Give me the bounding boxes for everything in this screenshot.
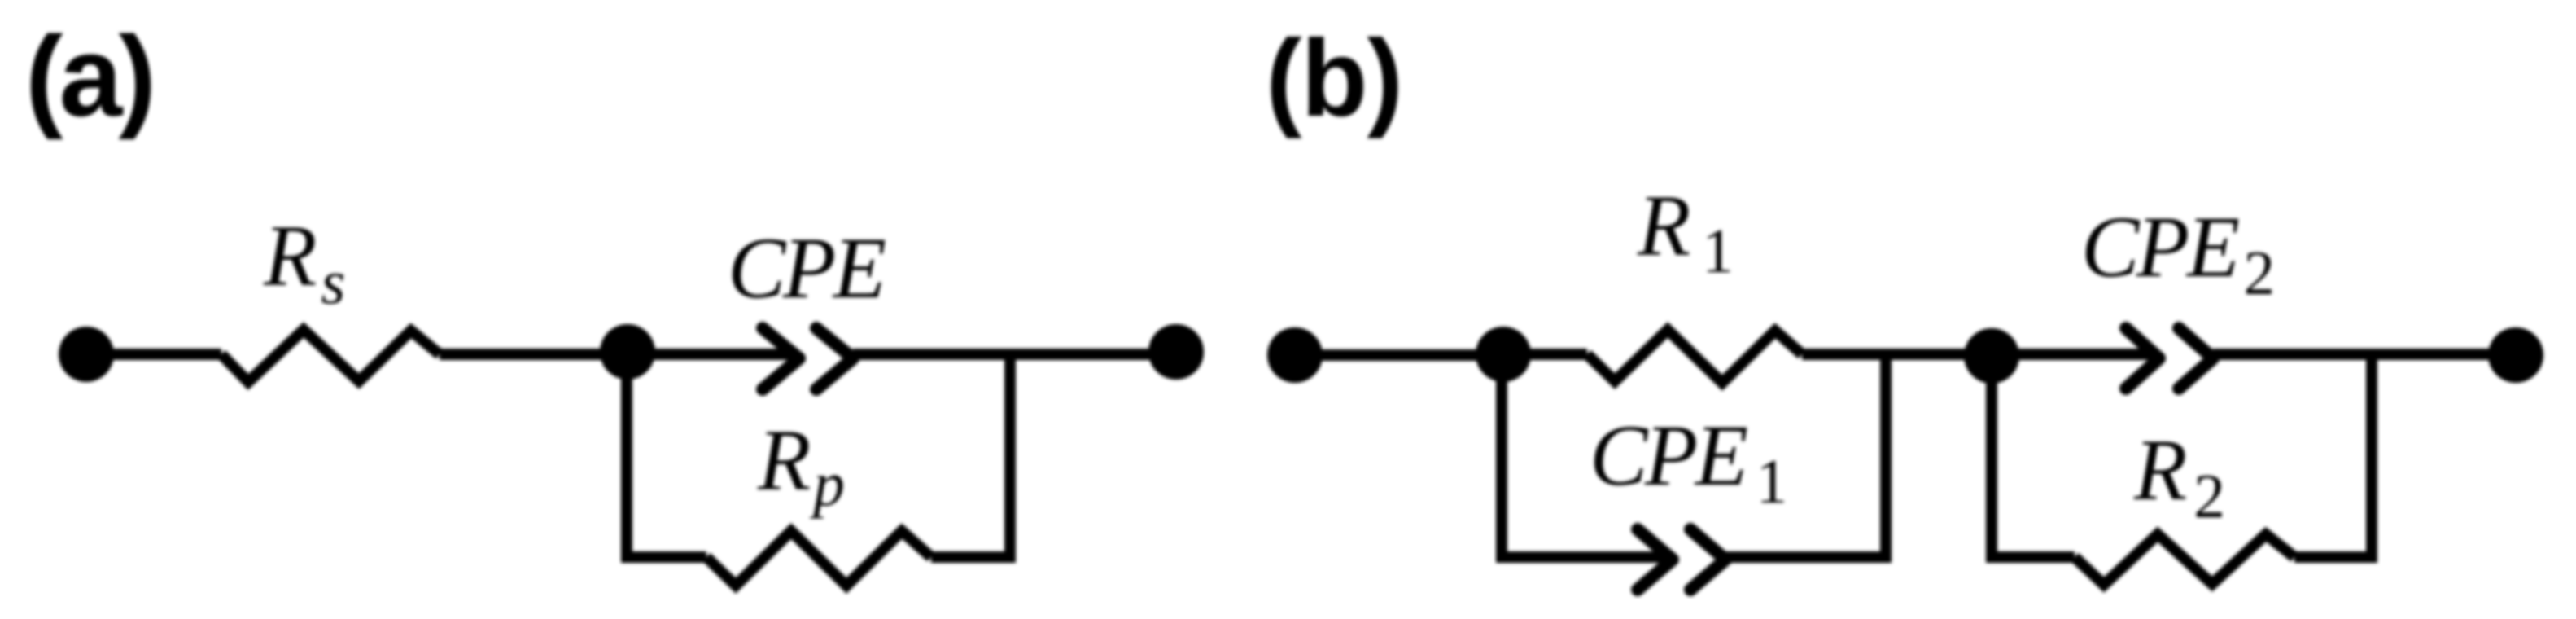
wire: [2213, 349, 2516, 360]
svg-text:(b): (b): [1266, 18, 1402, 139]
wire bottom left of block 1: [1496, 551, 1669, 563]
resistor Rp: [706, 413, 931, 586]
wire: [440, 349, 628, 360]
wire bottom right of block 1: [1725, 551, 1892, 563]
svg-text:R1: R1: [1637, 178, 1734, 286]
CPE2: [2081, 200, 2275, 389]
resistor Rs: [221, 209, 440, 382]
wire right vertical of block 1: [1880, 354, 1892, 557]
wire right vertical of block 2: [2366, 354, 2377, 557]
terminal dot B-left: [1267, 327, 1323, 383]
node N2: [1476, 327, 1531, 382]
wire bottom left segment: [621, 551, 706, 563]
svg-text:CPE1: CPE1: [1590, 408, 1787, 516]
terminal dot A-right: [1148, 324, 1204, 380]
wire: [1802, 349, 1992, 360]
wire bottom right of block 2: [2294, 551, 2377, 563]
svg-text:(a): (a): [25, 12, 152, 140]
wire: [1992, 349, 2156, 360]
wire right vertical of parallel branch: [1004, 354, 1016, 557]
node N1: [600, 324, 655, 380]
wire bottom left of block 2: [1986, 551, 2075, 563]
wire: [1503, 349, 1587, 360]
svg-text:CPE: CPE: [728, 221, 886, 317]
CPE1: [1590, 408, 1787, 590]
wire: [853, 349, 1176, 360]
svg-text:Rs: Rs: [263, 209, 345, 317]
wire left vertical of parallel branch: [621, 352, 632, 557]
svg-text:CPE2: CPE2: [2081, 200, 2275, 308]
terminal dot A-left: [59, 327, 114, 382]
CPE (constant phase element): [728, 221, 886, 389]
wire left vertical of block 2: [1986, 356, 1997, 557]
wire: [86, 349, 221, 360]
wire: [628, 349, 796, 360]
terminal dot B-right: [2488, 327, 2543, 383]
wire bottom right segment: [931, 551, 1016, 563]
svg-text:Rp: Rp: [757, 413, 845, 519]
resistor R1: [1587, 178, 1802, 383]
node N3: [1964, 328, 2019, 384]
wire left vertical of block 1: [1496, 354, 1507, 557]
svg-text:R2: R2: [2133, 423, 2225, 531]
wire: [1295, 349, 1503, 361]
resistor R2: [2075, 423, 2294, 585]
